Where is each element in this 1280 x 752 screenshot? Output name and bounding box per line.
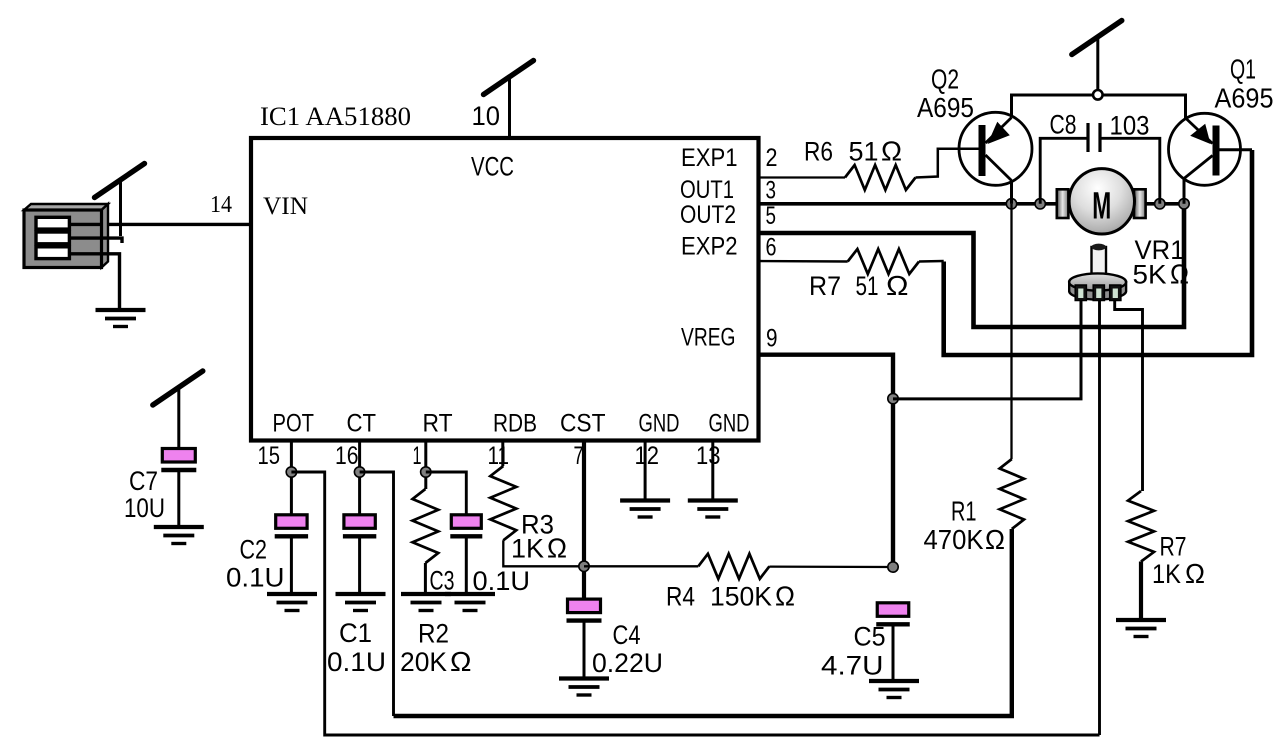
resistor R6 (845, 165, 916, 190)
svg-text:0.1U: 0.1U (473, 566, 531, 596)
svg-text:C3: C3 (430, 566, 455, 596)
wire CT to bus (360, 472, 394, 716)
svg-text:R1: R1 (951, 496, 977, 527)
svg-text:C7: C7 (129, 466, 158, 496)
svg-text:11: 11 (488, 442, 510, 470)
ground (R2) (401, 594, 451, 611)
wire Q2 emitter to rail (1010, 95, 1013, 118)
capacitor C1 (343, 515, 376, 537)
svg-text:10: 10 (472, 101, 501, 131)
potentiometer VR1 (1069, 244, 1126, 301)
connector J1 (power input socket) (24, 204, 108, 268)
svg-text:0.1U: 0.1U (226, 563, 285, 593)
svg-text:GND: GND (709, 410, 750, 438)
wire EXP2 to R7 (758, 260, 848, 263)
wire C5 to ground (892, 625, 895, 681)
resistor R2 20K (413, 489, 439, 563)
svg-text:R7: R7 (809, 271, 841, 301)
svg-text:IC1 AA51880: IC1 AA51880 (260, 102, 411, 131)
svg-text:12: 12 (635, 442, 660, 470)
connector pin 3 wire (69, 254, 120, 309)
resistor R7 1K (1128, 491, 1154, 562)
wire VREG to C5 node (758, 355, 893, 567)
svg-text:51: 51 (856, 271, 879, 301)
ground (pin 12) (620, 501, 670, 518)
wire CST node to R4 (584, 565, 698, 567)
svg-text:1K: 1K (1152, 559, 1181, 589)
svg-text:2: 2 (766, 144, 778, 172)
wire VR1 right terminal to R7 (1115, 301, 1143, 492)
transistor Q2 (959, 112, 1032, 185)
svg-text:14: 14 (210, 192, 232, 218)
resistor R1 470K (1000, 459, 1024, 529)
pin 12 stub (644, 440, 647, 500)
svg-text:103: 103 (1110, 110, 1150, 140)
wire R2 to ground (424, 563, 427, 594)
svg-text:1: 1 (413, 442, 422, 470)
wire C1 to ground (358, 537, 361, 594)
svg-text:R6: R6 (804, 137, 833, 167)
connector pin 1 wire (69, 223, 102, 226)
junction dot OUT1/Q2 collector (1006, 199, 1016, 209)
wire VR1 wiper to POT bus (1098, 301, 1101, 736)
svg-text:4.7U: 4.7U (821, 651, 884, 681)
svg-text:Ω: Ω (775, 581, 795, 612)
svg-text:470K: 470K (924, 524, 984, 555)
svg-text:EXP2: EXP2 (681, 233, 738, 261)
motor M (1057, 169, 1146, 234)
svg-text:Ω: Ω (985, 524, 1005, 555)
wire C7 to ground (177, 470, 180, 526)
junction dot C5 node (888, 562, 898, 572)
svg-text:C4: C4 (613, 620, 641, 650)
svg-text:R4: R4 (666, 582, 695, 612)
ground (C2) (267, 594, 317, 611)
wire R7 to Q1 base (944, 150, 1252, 355)
svg-text:10U: 10U (124, 493, 165, 523)
resistor R4 150K (698, 554, 769, 579)
capacitor C2 (275, 515, 308, 537)
svg-text:Ω: Ω (450, 646, 472, 677)
svg-text:OUT1: OUT1 (680, 176, 734, 204)
top supply rail (1012, 95, 1186, 118)
capacitor C7 (161, 449, 196, 471)
wire C4 to ground (583, 621, 586, 678)
wire R7 to ground (1139, 562, 1143, 622)
wire VIN connector to pin 14 (66, 223, 251, 226)
svg-text:5: 5 (766, 202, 777, 230)
wire R7 right lead (919, 260, 944, 263)
junction dot CT (354, 467, 364, 477)
svg-text:15: 15 (258, 442, 281, 470)
power symbol top (1072, 21, 1122, 90)
ground (C1) (336, 594, 386, 611)
ground (C3) (445, 594, 495, 611)
svg-text:CST: CST (560, 410, 606, 438)
junction dot RT (421, 467, 431, 477)
wire POT to bus (291, 472, 1099, 735)
ground (C7) (154, 527, 204, 544)
svg-text:POT: POT (273, 410, 315, 438)
svg-text:RT: RT (423, 410, 453, 438)
pin 15 stub (290, 440, 293, 515)
svg-text:R7: R7 (1160, 531, 1187, 561)
pin 16 stub (358, 440, 361, 515)
wire motor right terminal (1143, 202, 1184, 206)
junction dot C8 right (1155, 199, 1165, 209)
wire VREG node to VR1 left terminal (893, 301, 1081, 399)
ground (R7 1K) (1116, 620, 1166, 637)
resistor R3 1K (490, 466, 516, 540)
svg-text:1K: 1K (511, 534, 544, 564)
capacitor C4 (567, 599, 602, 621)
svg-text:Ω: Ω (881, 136, 902, 167)
junction dot C8 left (1035, 199, 1045, 209)
svg-text:C1: C1 (339, 618, 372, 648)
svg-text:C2: C2 (240, 535, 268, 565)
svg-text:9: 9 (766, 325, 778, 353)
transistor Q1 (1169, 113, 1241, 185)
pin 10 VCC stub wire (508, 77, 511, 138)
pin 13 stub (711, 440, 714, 500)
wire EXP1 to R6 (758, 176, 845, 178)
svg-text:20K: 20K (400, 647, 447, 677)
svg-text:0.1U: 0.1U (327, 647, 386, 677)
pin 7 stub (582, 440, 586, 600)
IC IC1 AA51880 body (251, 138, 759, 441)
svg-text:A695: A695 (1215, 83, 1274, 114)
power symbol at connector (95, 164, 145, 237)
pin 11 stub (501, 440, 504, 466)
resistor R7 (51 ohm) (848, 249, 919, 274)
capacitor C5 (876, 603, 910, 625)
wire R1 to CT bus (394, 529, 1012, 716)
svg-text:M: M (1092, 186, 1111, 228)
svg-text:GND: GND (639, 410, 680, 438)
svg-text:C5: C5 (854, 621, 886, 651)
wire Q1 collector to motor wire (1183, 179, 1186, 204)
wire R3 to CST node (503, 540, 584, 566)
wire OUT2 down and across (758, 206, 1184, 327)
junction dot CST (579, 561, 589, 571)
wire Q1 emitter to rail (1184, 95, 1187, 118)
svg-text:EXP1: EXP1 (681, 144, 738, 172)
svg-text:6: 6 (766, 234, 777, 262)
power symbol at VCC (484, 61, 534, 95)
wire R6 to Q2 base (916, 149, 980, 178)
svg-text:Ω: Ω (547, 533, 567, 564)
svg-text:Ω: Ω (1170, 258, 1189, 289)
svg-text:5K: 5K (1133, 259, 1167, 289)
wire OUT1 node down to R1 (1010, 204, 1012, 459)
power symbol at C7 (153, 371, 203, 449)
wire C2 to ground (290, 537, 293, 594)
wire Q1 base to right (1220, 148, 1253, 151)
svg-text:VCC: VCC (471, 152, 514, 182)
wire RT to C3 (426, 472, 467, 515)
wire R4 to C5 node (769, 565, 893, 568)
pin 1 stub (424, 440, 427, 489)
svg-text:RDB: RDB (493, 410, 537, 438)
svg-text:Ω: Ω (886, 270, 909, 301)
svg-text:OUT2: OUT2 (680, 201, 736, 229)
svg-text:C8: C8 (1050, 110, 1077, 140)
svg-text:A695: A695 (917, 92, 974, 123)
capacitor C3 (450, 515, 482, 537)
svg-text:13: 13 (696, 442, 721, 470)
junction dot motor right/Q1 collector (1179, 199, 1189, 209)
wire Q2 collector to OUT1 (1010, 181, 1013, 204)
connector pin 2 wire (69, 238, 122, 243)
svg-text:Q1: Q1 (1230, 53, 1256, 84)
capacitor C8 (1040, 123, 1160, 204)
svg-text:0.22U: 0.22U (592, 648, 663, 678)
svg-text:51: 51 (849, 137, 879, 167)
junction dot POT (286, 467, 296, 477)
svg-text:CT: CT (347, 410, 377, 438)
ground (C4) (559, 679, 609, 696)
wire OUT1 to motor left terminal (758, 202, 1058, 206)
svg-text:Ω: Ω (1185, 558, 1205, 589)
wire C3 to ground (465, 537, 468, 594)
ground (pin 13) (688, 501, 738, 518)
svg-text:VIN: VIN (263, 193, 308, 220)
terminal circle on rail (1093, 90, 1103, 100)
junction dot VREG node (888, 393, 898, 403)
ground (connector) (96, 310, 146, 327)
svg-text:16: 16 (335, 442, 359, 470)
svg-text:VREG: VREG (681, 324, 736, 352)
svg-text:3: 3 (766, 177, 777, 205)
svg-text:Q2: Q2 (931, 64, 959, 95)
svg-text:150K: 150K (710, 582, 772, 612)
ground (C5) (869, 681, 919, 698)
svg-text:R2: R2 (418, 618, 449, 648)
